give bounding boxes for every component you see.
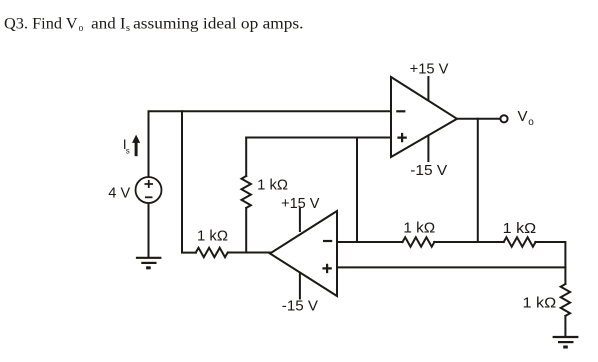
svg-text:o: o bbox=[528, 117, 534, 128]
svg-text:1 kΩ: 1 kΩ bbox=[257, 177, 288, 194]
wire: U1 output to terminal bbox=[457, 118, 500, 120]
svg-text:1 kΩ: 1 kΩ bbox=[197, 227, 228, 244]
wire: Vo drop to R3/R4 junction bbox=[477, 119, 479, 242]
ground (bottom right) bbox=[553, 337, 579, 347]
output terminal circle bbox=[500, 115, 507, 122]
svg-text:s: s bbox=[126, 147, 130, 156]
U2 minus sign bbox=[323, 240, 332, 242]
voltage source V1 4V bbox=[136, 177, 162, 203]
wire: R1 to U2 output apex bbox=[229, 252, 271, 254]
wire: middle branch vertical (top part) bbox=[245, 138, 247, 177]
title: Q3. Find Vo and Is assuming ideal op amps. bbox=[4, 15, 304, 34]
wire: middle branch vertical (bottom part) bbox=[245, 208, 247, 253]
svg-text:1 kΩ: 1 kΩ bbox=[503, 220, 537, 237]
supply stub -15V of U1 bbox=[427, 135, 429, 161]
svg-text:o: o bbox=[79, 23, 84, 34]
svg-text:1 kΩ: 1 kΩ bbox=[523, 295, 557, 312]
wire: left junction drop from top wire to bottom-left wire bbox=[182, 111, 196, 252]
wire: U2 non-inverting input run bbox=[337, 266, 565, 268]
current arrow Is bbox=[135, 142, 138, 156]
resistor R4 1 kΩ (horizontal) bbox=[504, 237, 536, 246]
svg-text:s: s bbox=[126, 23, 130, 34]
svg-text:-15 V: -15 V bbox=[410, 162, 447, 179]
ground (source) bbox=[136, 258, 162, 268]
resistor R3 1 kΩ (horizontal) bbox=[403, 237, 435, 246]
U1 plus sign bbox=[397, 133, 406, 142]
svg-text:1 kΩ: 1 kΩ bbox=[403, 220, 435, 237]
svg-text:V: V bbox=[518, 108, 528, 125]
svg-text:and I: and I bbox=[91, 15, 125, 32]
U2 plus sign bbox=[322, 264, 331, 273]
wire: U2 inverting input run to R3 bbox=[337, 241, 403, 243]
wire: R3 to R4 bbox=[434, 241, 504, 243]
op-amp U1 (right-pointing) bbox=[391, 77, 457, 157]
wire: source bottom lead bbox=[148, 203, 150, 257]
svg-text:+15 V: +15 V bbox=[410, 60, 449, 77]
svg-text:assuming ideal op amps.: assuming ideal op amps. bbox=[133, 15, 303, 32]
resistor R1 1 kΩ (horizontal, bottom left) bbox=[196, 248, 228, 257]
wire: feedback branch from + wire down to U2 inverting input wire bbox=[356, 138, 358, 243]
V1 minus sign bbox=[145, 196, 153, 198]
svg-text:Q3. Find V: Q3. Find V bbox=[4, 15, 78, 32]
wire: U1 non-inverting input horizontal bbox=[246, 137, 391, 139]
svg-text:+15 V: +15 V bbox=[281, 195, 319, 212]
wire: R5 to ground bbox=[564, 316, 566, 336]
U1 minus sign bbox=[396, 110, 405, 112]
V1 plus sign bbox=[145, 180, 154, 188]
resistor R5 1 kΩ (vertical, right) bbox=[561, 284, 570, 316]
svg-text:4 V: 4 V bbox=[108, 185, 130, 202]
op-amp U2 (left-pointing) bbox=[270, 211, 337, 296]
svg-text:-15 V: -15 V bbox=[282, 298, 318, 315]
supply stub -15V of U2 bbox=[299, 273, 301, 299]
resistor R2 1 kΩ (vertical, middle) bbox=[242, 176, 251, 208]
wire: source top to inverting input of U1 bbox=[149, 111, 392, 177]
wire: R4 to right corner bbox=[535, 242, 565, 284]
supply stub +15V of U2 bbox=[299, 209, 301, 232]
supply stub +15V of U1 bbox=[427, 77, 429, 100]
